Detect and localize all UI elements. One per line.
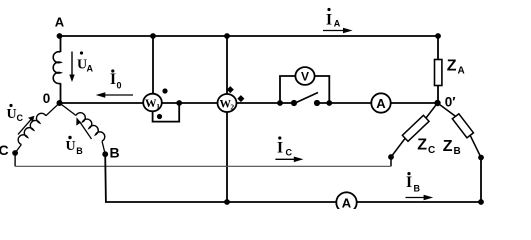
impedance Z_B xyxy=(452,114,473,138)
svg-text:A: A xyxy=(87,64,94,74)
label I_C with arrow xyxy=(275,136,303,162)
node 0 xyxy=(57,100,63,106)
svg-text:1: 1 xyxy=(156,102,160,111)
wattmeter W2 xyxy=(218,94,237,112)
label I_0 with left arrow xyxy=(96,69,133,97)
voltmeter V xyxy=(295,67,314,85)
svg-text:B: B xyxy=(454,146,461,157)
svg-text:B: B xyxy=(109,145,119,161)
svg-text:0: 0 xyxy=(43,91,51,106)
svg-text:V: V xyxy=(301,69,309,83)
wire: Z_B to corner xyxy=(470,135,481,158)
node: top junction to W1 xyxy=(150,33,156,39)
wire: neutral line left section (0 to switch) xyxy=(60,102,295,104)
svg-text:I: I xyxy=(277,139,283,156)
label U_C with arrow xyxy=(6,104,34,134)
polarity dot W1 voltage coil xyxy=(157,114,162,119)
wire: phase B line xyxy=(105,154,481,202)
coil: generator winding C xyxy=(15,103,59,153)
label Z_A xyxy=(447,58,465,77)
wire: corner down to C line xyxy=(390,157,392,166)
svg-text:A: A xyxy=(334,19,341,29)
wire: voltmeter bypass xyxy=(280,76,329,103)
label Z_C xyxy=(417,137,435,156)
label U_A with down arrow xyxy=(69,51,93,82)
node: top junction to W2 xyxy=(224,33,230,39)
node: switch right contact xyxy=(314,100,320,106)
node: W2 drop junction on B line xyxy=(224,199,230,205)
wire: Z_C to corner xyxy=(391,139,405,158)
wire: neutral line right section (switch to 0') xyxy=(317,102,438,104)
svg-text:C: C xyxy=(286,148,293,158)
impedance Z_C xyxy=(402,115,429,141)
polarity dot W1 current coil xyxy=(162,88,167,93)
wire: phase A top line xyxy=(60,35,439,37)
svg-text:I: I xyxy=(406,174,412,191)
svg-text:Z: Z xyxy=(447,58,457,75)
node: Z_B bottom corner xyxy=(478,155,484,161)
wire: W2 voltage-coil drop to phase B xyxy=(226,112,228,202)
svg-text:B: B xyxy=(76,146,83,156)
impedance Z_A xyxy=(435,60,442,86)
label Z_B xyxy=(443,138,461,157)
wire: 0' to Z_B xyxy=(438,103,456,117)
svg-text:A: A xyxy=(458,66,465,77)
svg-text:C: C xyxy=(0,142,9,158)
wire: generator phase A vertical xyxy=(60,36,62,52)
polarity dot W2 voltage coil xyxy=(237,95,244,102)
wire: phase C line xyxy=(14,153,16,166)
svg-text:B: B xyxy=(414,184,421,194)
svg-text:C: C xyxy=(17,113,24,123)
node 0' xyxy=(434,100,440,106)
svg-text:U: U xyxy=(6,107,16,122)
node: voltmeter bypass left xyxy=(277,100,283,106)
svg-text:A: A xyxy=(55,15,65,30)
label I_A with arrow xyxy=(323,8,353,33)
coil: generator winding B xyxy=(60,103,106,154)
coil: generator winding A xyxy=(53,52,60,84)
ammeter A (neutral) xyxy=(371,93,390,112)
label I_B with arrow xyxy=(406,172,434,200)
node B xyxy=(102,151,108,157)
wire: W1 voltage-coil drop from phase A xyxy=(152,36,154,103)
node A xyxy=(57,33,63,39)
wire: 0' to Z_C xyxy=(426,103,438,118)
wire: W1 voltage-coil loop to neutral xyxy=(153,103,180,122)
svg-text:Z: Z xyxy=(443,138,453,155)
svg-text:2: 2 xyxy=(230,103,234,112)
ammeter A (phase B) xyxy=(336,192,356,212)
node: Z_C bottom corner xyxy=(388,154,394,160)
svg-text:A: A xyxy=(376,96,386,111)
node: top right corner xyxy=(435,33,441,39)
polarity dot W2 current coil xyxy=(227,86,234,93)
svg-text:0: 0 xyxy=(117,81,122,91)
label U_B with arrow xyxy=(65,117,91,156)
switch blade (open) xyxy=(294,93,318,104)
wire: phase A load branch vertical xyxy=(437,36,439,60)
svg-text:Z: Z xyxy=(417,137,427,154)
svg-text:I: I xyxy=(110,71,116,88)
node: W1 loop junction xyxy=(176,100,182,106)
svg-text:A: A xyxy=(342,196,352,210)
svg-text:0′: 0′ xyxy=(445,95,456,110)
svg-text:I: I xyxy=(326,12,332,29)
wattmeter W1 xyxy=(143,94,162,112)
wire: Z_B corner down to bottom line xyxy=(480,158,482,203)
node: bottom right corner xyxy=(478,199,484,205)
svg-text:C: C xyxy=(428,145,435,156)
node: switch left contact xyxy=(291,100,297,106)
node C xyxy=(12,150,18,156)
wire: W2 voltage-coil drop from phase A xyxy=(226,36,228,94)
svg-text:U: U xyxy=(65,139,75,154)
node: voltmeter bypass right xyxy=(326,100,332,106)
